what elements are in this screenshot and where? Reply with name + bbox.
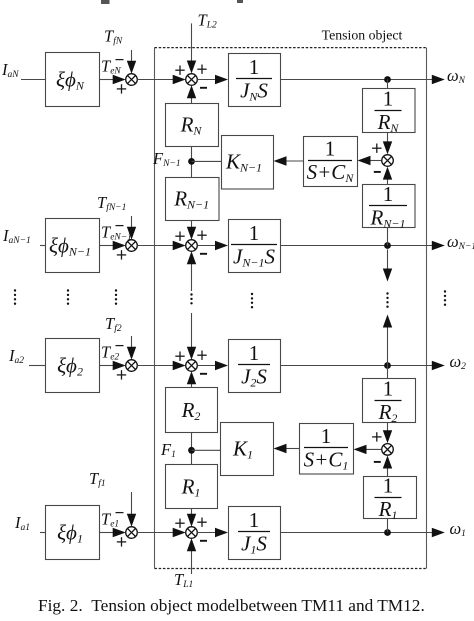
wire T_fN input (127, 50, 136, 74)
wire T_e1 to summing junction (99, 528, 126, 537)
sign plus top-right row N−1 (197, 231, 206, 240)
node F_1 junction dot (188, 447, 195, 454)
figure caption (38, 596, 425, 615)
wire to inertia block row N−1 (197, 241, 228, 250)
summing junction speed difference bottom (382, 444, 394, 456)
sign minus bottom-right row N−1 (200, 253, 207, 255)
wire I_aN to motor block (21, 79, 45, 81)
node F_N-1 junction dot (188, 158, 195, 165)
wire F_N-1 to K_N-1 (192, 160, 222, 162)
block 1/(S+C_1) (300, 424, 354, 475)
wire I_aN−1 to motor block (40, 245, 45, 247)
svg-text:1: 1 (383, 182, 394, 206)
ellipsis inertia block column (251, 293, 253, 309)
ellipsis continuation tension line (190, 293, 192, 304)
wire omega_1 to 1/R_1 (387, 518, 389, 533)
block 1/R_N-1 (363, 182, 416, 230)
svg-text:1: 1 (325, 137, 336, 161)
wire F_1 to K_1 (192, 449, 221, 451)
summing junction speed row 1 (186, 527, 198, 539)
wire T_L1 input (187, 538, 196, 574)
wire to inertia block row 1 (197, 528, 228, 537)
label T_fN (104, 27, 123, 47)
sign minus at 1/R_1 input (374, 461, 381, 463)
wire to speed summing junction row N (137, 75, 185, 84)
label omega_N (447, 66, 466, 86)
summing junction speed row 2 (186, 360, 198, 372)
block K_N-1 (stiffness) (222, 136, 274, 190)
block 1/R_2 (363, 377, 416, 425)
wire omega_1 output (280, 528, 445, 537)
label F_N-1 (152, 149, 181, 169)
block xi-phi_1 (motor torque gain) (46, 506, 100, 560)
svg-text:Fig. 2. Tension object modelb: Fig. 2. Tension object modelbetween TM11… (38, 596, 425, 615)
sign plus left row 2 (175, 352, 184, 361)
sign plus at T_e input (117, 84, 126, 93)
wire T_f2 input (127, 336, 136, 360)
label T_f1 (89, 469, 106, 489)
sign minus at 1/R_N-1 input (374, 171, 381, 173)
sign minus at T_f input (116, 512, 124, 514)
block 1/(J_NS) inertia (229, 54, 281, 107)
wire elided speed branch lower (383, 315, 392, 366)
sign minus at T_f input (116, 345, 124, 347)
wire to speed summing junction row 2 (137, 361, 185, 370)
ellipsis continuation speed line (386, 292, 388, 308)
wire elided tension feedback upper (187, 251, 196, 291)
svg-text:1: 1 (249, 341, 260, 365)
label T_e2 (101, 343, 119, 363)
block R_2 (radius) (166, 388, 218, 433)
label Tension object (322, 28, 403, 43)
block R_N-1 (radius) (166, 178, 220, 221)
block R_1 (radius) (166, 465, 218, 509)
node omega_N junction dot (384, 76, 391, 83)
sign minus at T_f input (116, 59, 124, 61)
label T_f2 (105, 314, 122, 334)
sign plus left row N (175, 66, 184, 75)
wire 1/R_N-1 to difference junction (383, 167, 392, 184)
svg-text:1: 1 (249, 221, 260, 245)
wire tension node F_N-1 (191, 146, 193, 177)
node I_aN input label (1, 60, 19, 80)
wire to inertia block row 2 (197, 361, 228, 370)
sign plus top-right row N (197, 65, 206, 74)
wire R_1 to speed junction row 1 (187, 508, 196, 527)
summing junction torque row N−1 (126, 240, 138, 252)
wire speed-difference junction to 1/(S+C_N) (358, 156, 383, 165)
sign plus left row 1 (175, 519, 184, 528)
summing junction torque row 1 (126, 527, 138, 539)
wire omega_2 output (280, 361, 445, 370)
summing junction speed difference top (382, 155, 394, 167)
sign minus at T_f input (116, 225, 124, 227)
sign plus at 1/R_2 input (372, 432, 381, 441)
tension object dashed boundary (155, 48, 427, 569)
node omega_N−1 junction dot (384, 242, 391, 249)
wire omega_N-1 to 1/R_N-1 (387, 227, 389, 246)
wire omega_N to 1/R_N (387, 80, 389, 89)
wire R_N to speed junction row N (187, 85, 196, 103)
label omega_2 (450, 352, 467, 372)
label T_e1 (101, 510, 119, 530)
sign minus bottom-right row N (200, 87, 207, 89)
sign plus at T_e input (117, 537, 126, 546)
block 1/(J_2S) inertia (229, 340, 281, 393)
ellipsis T_e column (115, 289, 117, 305)
ellipsis I_a column (14, 289, 16, 305)
wire tension node F_1 (191, 432, 193, 464)
node omega_2 junction dot (384, 362, 391, 369)
wire 1/R_N to difference junction (383, 132, 392, 154)
wire 1/(S+C_1) to K_1 (274, 444, 300, 453)
label F_1 (160, 440, 176, 460)
svg-text:S+C1: S+C1 (304, 448, 349, 473)
ellipsis motor block column (67, 289, 69, 305)
summing junction speed row N (186, 74, 198, 86)
wire to inertia block row N (197, 75, 228, 84)
wire I_a1 to motor block (40, 532, 45, 534)
sign plus at T_e input (117, 370, 126, 379)
wire speed-difference junction to 1/(S+C_1) (354, 445, 383, 454)
svg-text:1: 1 (383, 87, 394, 111)
label T_fN−1 (97, 193, 126, 213)
wire omega_N output (280, 75, 445, 84)
svg-text:Tension object: Tension object (322, 28, 403, 43)
label T_L2 (198, 11, 217, 31)
sign plus at T_e input (117, 250, 126, 259)
label omega_1 (450, 519, 466, 539)
wire 1/R_1 to difference junction (383, 456, 392, 477)
label omega_N−1 (447, 232, 474, 252)
cropped glyph fragment top-left (101, 0, 110, 4)
svg-text:1: 1 (249, 508, 260, 532)
label T_eN−1 (101, 223, 132, 243)
node I_a2 input label (8, 346, 24, 366)
wire elided speed branch upper (383, 249, 392, 281)
wire R_N-1 to speed junction row N-1 (187, 220, 196, 240)
wire to speed summing junction row N−1 (137, 241, 185, 250)
wire elided tension feedback lower (187, 313, 196, 360)
block 1/(S+C_N) (304, 137, 358, 187)
label T_eN (101, 57, 121, 77)
sign plus top-right row 1 (197, 518, 206, 527)
block 1/R_N (363, 87, 416, 135)
block 1/(J_1S) inertia (229, 507, 281, 560)
svg-text:1: 1 (383, 474, 394, 498)
sign minus bottom-right row 1 (200, 540, 207, 542)
sign minus bottom-right row 2 (200, 373, 207, 375)
wire 1/R_2 to difference junction (383, 422, 392, 443)
svg-text:1: 1 (249, 55, 260, 79)
wire T_e2 to summing junction (99, 361, 126, 370)
svg-text:1: 1 (383, 377, 394, 401)
wire R_2 to speed junction row 2 (187, 371, 196, 387)
summing junction speed row N−1 (186, 240, 198, 252)
wire T_fN−1 input (127, 216, 136, 240)
wire omega_2 to 1/R_2 (387, 366, 389, 379)
cropped glyph fragment top-right (237, 0, 243, 3)
wire 1/(S+C_N) to K_N-1 (274, 156, 304, 165)
summing junction torque row 2 (126, 360, 138, 372)
node I_a1 input label (14, 513, 30, 533)
wire to speed summing junction row 1 (137, 528, 185, 537)
sign plus top-right row 2 (197, 351, 206, 360)
block K_1 (stiffness) (221, 423, 274, 476)
node I_aN−1 input label (2, 226, 31, 246)
label T_L1 (174, 570, 193, 590)
block R_N (radius) (166, 104, 219, 147)
wire T_L2 input (187, 23, 196, 73)
block 1/(J_N−1S) inertia (229, 220, 281, 273)
wire T_eN to summing junction (99, 75, 126, 84)
svg-text:1: 1 (321, 424, 332, 448)
block xi-phi_2 (motor torque gain) (46, 339, 100, 393)
wire T_eN−1 to summing junction (99, 241, 126, 250)
block xi-phi_N (motor torque gain) (46, 53, 100, 107)
sign plus left row N−1 (175, 232, 184, 241)
wire T_f1 input (127, 492, 136, 527)
node omega_1 junction dot (384, 529, 391, 536)
wire I_a2 to motor block (29, 365, 45, 367)
block 1/R_1 (364, 474, 417, 522)
block xi-phi_N−1 (motor torque gain) (46, 219, 100, 273)
ellipsis omega column (444, 290, 446, 306)
sign plus at 1/R_N input (372, 144, 381, 153)
wire omega_N−1 output (280, 241, 445, 250)
summing junction torque row N (126, 74, 138, 86)
